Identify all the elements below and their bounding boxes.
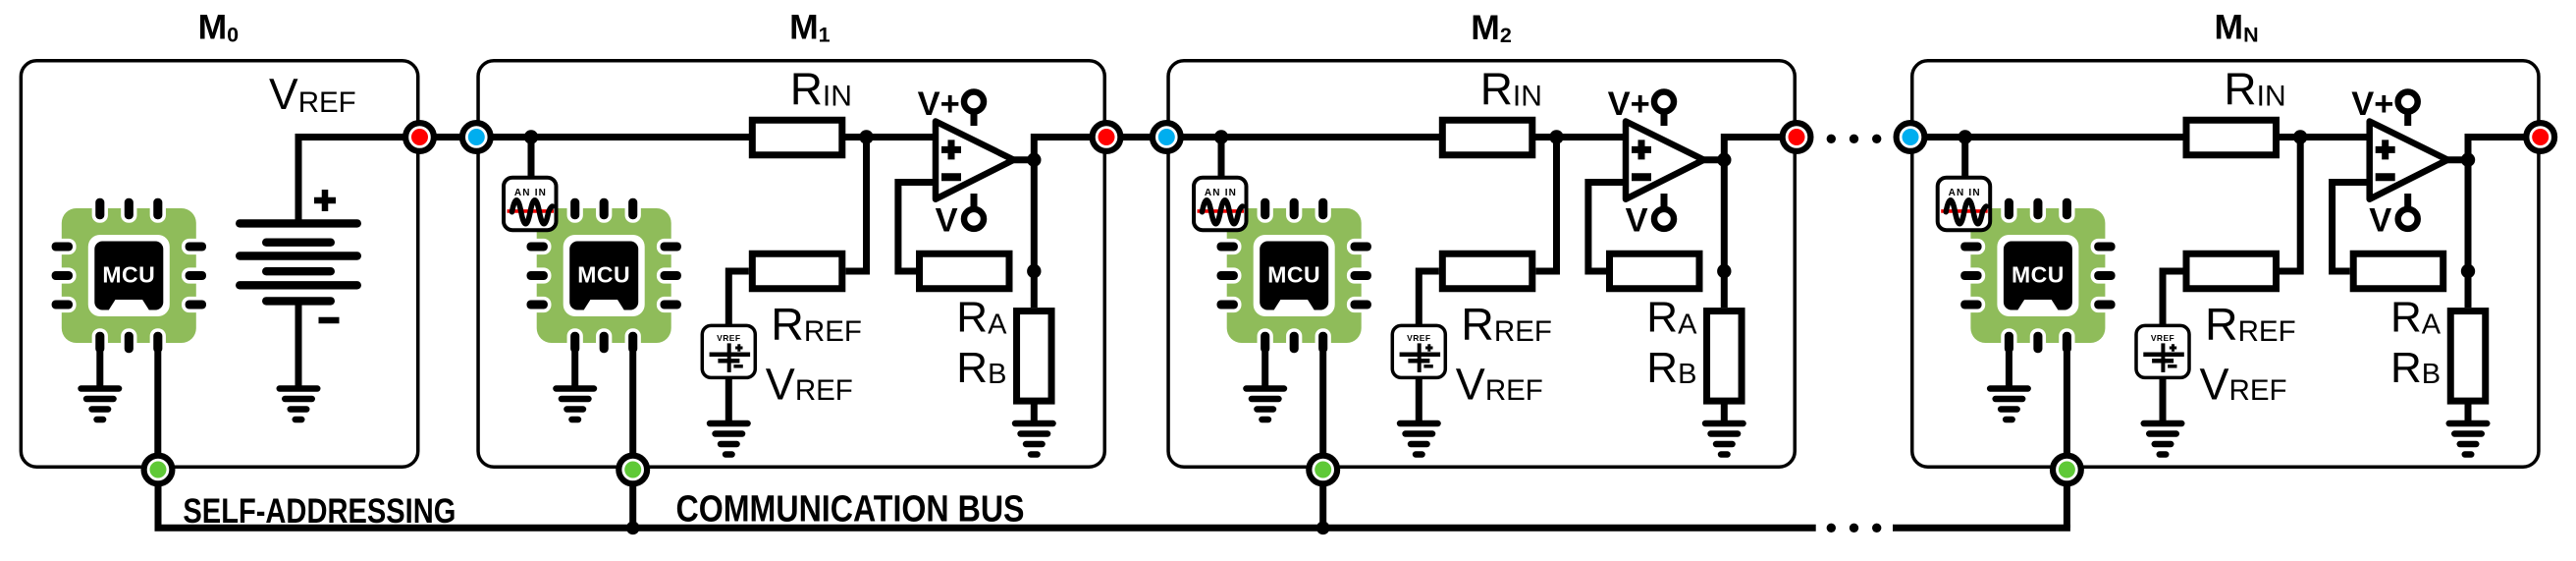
svg-text:MN: MN [2215, 8, 2259, 47]
svg-text:VREF: VREF [269, 71, 356, 119]
svg-text:SELF-ADDRESSING: SELF-ADDRESSING [183, 491, 456, 531]
svg-text:M1: M1 [789, 8, 831, 47]
svg-text:M2: M2 [1471, 8, 1512, 47]
svg-text:COMMUNICATION BUS: COMMUNICATION BUS [676, 489, 1025, 531]
svg-text:M0: M0 [198, 8, 240, 47]
